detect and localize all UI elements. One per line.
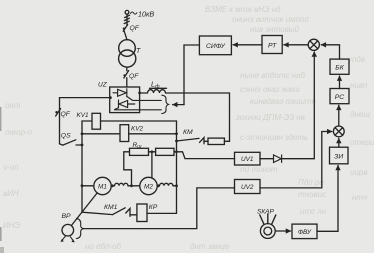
left dc bus [81, 121, 83, 212]
field winding of M1 [111, 183, 132, 187]
wire UZ left to QF3 [60, 97, 111, 99]
node on left bus (M1 tap) [81, 184, 84, 187]
wire resistor to reactor line [224, 93, 229, 141]
wire KM to resistor [204, 140, 208, 142]
breaker QF (top) [123, 25, 128, 40]
wire diode to summer1 (arrow) [282, 52, 315, 159]
right dc bus [176, 121, 178, 213]
wire R2 to right bus [174, 151, 177, 153]
breaker QF (dc side) [55, 98, 60, 144]
label ~10kV [131, 12, 137, 14]
bracket at BR output [76, 219, 83, 239]
block ZI [330, 147, 349, 164]
shunt resistor Rsh [130, 148, 149, 155]
wire Rsh to R2 [149, 151, 156, 153]
block UV1 (voltage sensor) [235, 152, 261, 165]
node right bus (M2) [175, 184, 178, 187]
contactor KM contact [177, 138, 205, 144]
relay KV1 [92, 113, 101, 129]
wire RT to SIFU (arrow) [233, 44, 262, 46]
wire left bus to KV1 [82, 120, 92, 122]
block RS [330, 89, 349, 104]
block RT [262, 36, 282, 54]
contactor KM1 contact [113, 208, 130, 217]
motor M1 [94, 177, 111, 194]
node right bus (KV2) [175, 132, 178, 135]
node: UZ right dc terminal [138, 92, 141, 95]
summer node 1 (current loop) [308, 39, 319, 50]
wire supply to QF [126, 14, 128, 25]
block SIFU [199, 36, 231, 55]
transformer T [119, 40, 136, 67]
gate bracket [162, 95, 169, 113]
wire left bus to KM1 contact [82, 212, 113, 214]
block UV2 (speed sensor amp) [235, 180, 261, 194]
diode VD [274, 155, 282, 163]
node right bus (R tap) [175, 150, 178, 153]
wire UV2 to summer2 (arrow) [260, 132, 332, 188]
rectifier UZ box [110, 87, 140, 113]
block FVU [292, 224, 317, 239]
summer node 2 (speed loop) [333, 126, 344, 137]
breaker QF (below T) [123, 71, 128, 78]
smoothing reactor L (wire and humps) [140, 90, 230, 93]
wire left bus to KV2 [82, 133, 120, 135]
disconnector QS [60, 140, 83, 145]
node M2 winding to right bus [157, 184, 160, 187]
relay KR [137, 204, 147, 222]
UZ gate leads [140, 100, 162, 109]
node on left bus (KV2 tap) [81, 132, 84, 135]
node between Rsh and R2 [151, 150, 154, 153]
wire ZI to summer2 (arrow) [338, 138, 340, 147]
field winding of M2 [157, 183, 176, 186]
scan artifacts [0, 107, 4, 253]
wire FVU to ZI (arrow) [317, 165, 338, 231]
relay KV2 [120, 125, 129, 142]
command sensor SKAR [260, 214, 276, 238]
node on left bus (QS tap) [81, 144, 84, 147]
resistor R2 [156, 148, 174, 155]
wire T to QF2 [126, 67, 128, 71]
wire QF2 to rectifier UZ [126, 78, 128, 87]
node: supply terminal ~10kV [124, 10, 129, 23]
motor M2 [140, 177, 157, 194]
braking resistor R1 [208, 138, 224, 144]
wire SKAR to FVU (arrow) [275, 230, 290, 232]
node: UZ left dc terminal [109, 96, 112, 99]
block BK [330, 59, 349, 74]
wire UV1 to diode [260, 158, 274, 160]
shunt resistor Rsh network: tap wire [124, 152, 132, 186]
thyristor VS1 (top, points right) [113, 89, 140, 101]
wire summer2 to RS (arrow) [338, 105, 340, 126]
label L (with underline) [150, 80, 167, 91]
wire J1 to M2 [132, 185, 140, 187]
wire KV2 to right bus [129, 133, 177, 135]
wire node to UV1 [177, 152, 235, 159]
node J1 (Rsh tap) [130, 184, 133, 187]
wire KM1 to relay KR [130, 214, 137, 216]
thyristor VS2 (bottom, points left) [114, 100, 139, 110]
tachogenerator BR [62, 224, 74, 236]
wire RS to BK (arrow) [339, 76, 341, 89]
shaft BR to M1 [71, 193, 97, 226]
wire KV1 to right bus [101, 120, 177, 122]
wire BK to summer1 (arrow) [321, 45, 339, 59]
wire SIFU output down [184, 45, 199, 105]
rotation arrows [61, 236, 75, 242]
wire SIFU to gates (arrow) [173, 104, 184, 106]
node right bus (KM) [175, 140, 178, 143]
wire tap to M2 [151, 152, 153, 178]
wire left bus to M1 [82, 185, 94, 187]
wire BR to UV2 [83, 188, 234, 229]
wire KR to right bus [147, 212, 177, 214]
wire summer1 to RT (arrow) [284, 44, 308, 46]
